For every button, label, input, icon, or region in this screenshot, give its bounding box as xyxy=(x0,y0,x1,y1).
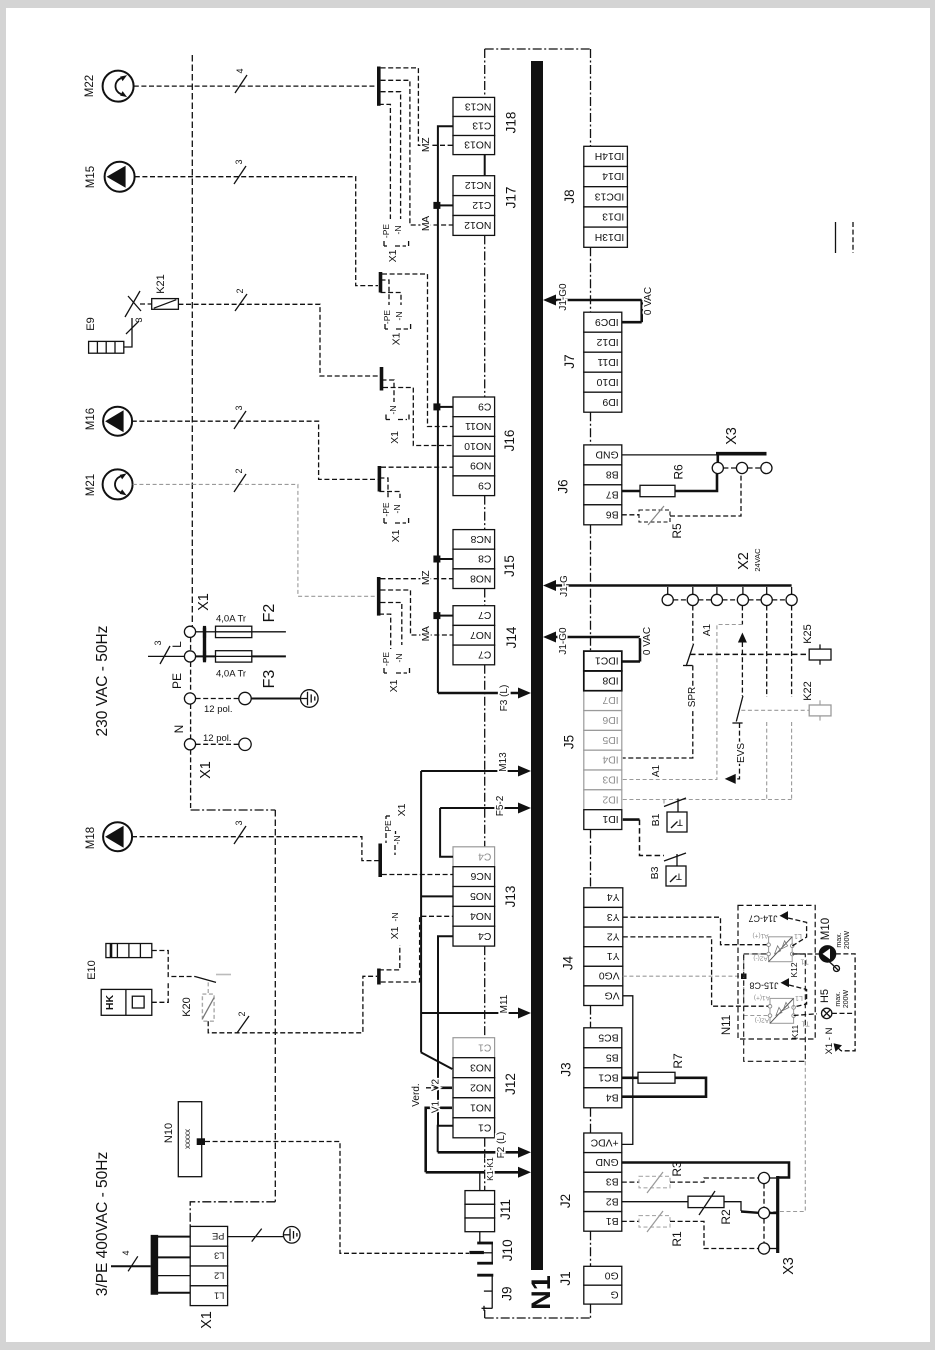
connector J4 terminal Y3 xyxy=(584,907,623,927)
SSR K11 xyxy=(770,998,794,1023)
svg-text:NC12: NC12 xyxy=(465,179,492,190)
wire Y2 to K11 A1+ xyxy=(623,937,770,1006)
connector J8 terminal ID14H xyxy=(584,146,628,166)
wire ID2 to B1 (grey) xyxy=(623,799,792,801)
X2 pin 6 xyxy=(791,587,793,594)
HK inner square xyxy=(132,996,144,1008)
connector J3 terminal B4 xyxy=(584,1088,622,1108)
wire GND (J6) to X3 xyxy=(622,454,767,456)
M10 earth nub xyxy=(829,962,834,967)
svg-text:200W: 200W xyxy=(844,930,851,949)
svg-text:ID2: ID2 xyxy=(602,793,618,804)
svg-text:J14-C7: J14-C7 xyxy=(748,914,777,924)
svg-text:M21: M21 xyxy=(85,474,97,496)
svg-text:-N: -N xyxy=(394,312,404,321)
svg-text:230 VAC - 50Hz: 230 VAC - 50Hz xyxy=(94,626,111,737)
svg-text:R7: R7 xyxy=(671,1053,685,1069)
wire M22 N conductor xyxy=(381,92,401,219)
connector J1 terminal G xyxy=(584,1285,622,1304)
motor M22 (rotation symbol) xyxy=(103,71,134,102)
connector X3 (sensor) bar xyxy=(716,452,767,455)
wire PE 400V to ground xyxy=(228,1236,283,1238)
svg-text:2: 2 xyxy=(235,288,245,293)
svg-text:F2: F2 xyxy=(261,604,278,623)
wire X2 pin5 drop xyxy=(766,606,768,698)
svg-text:C7: C7 xyxy=(478,649,492,660)
svg-text:NO9: NO9 xyxy=(470,460,492,471)
svg-text:E9: E9 xyxy=(85,317,97,330)
dashed links X3b pins xyxy=(763,1184,765,1208)
connector J14 terminal C7 xyxy=(453,606,495,626)
wire EVS branch lower xyxy=(731,723,740,779)
controller N1 outline bottom edge xyxy=(485,1317,591,1319)
slash M18 /3 xyxy=(234,826,246,844)
svg-text:NO12: NO12 xyxy=(464,219,491,230)
link J18-J17 xyxy=(484,155,486,176)
svg-text:2: 2 xyxy=(234,468,244,473)
svg-text:-N: -N xyxy=(392,836,402,845)
terminal 12pol PE xyxy=(239,692,251,704)
X1 cable bar (M18) xyxy=(378,844,382,878)
svg-text:-PE: -PE xyxy=(381,502,391,517)
svg-text:J1-G0: J1-G0 xyxy=(558,627,569,655)
stub to C8 xyxy=(438,558,453,560)
connector J18 terminal C13 xyxy=(453,117,495,136)
connector J12 terminal C1 xyxy=(453,1118,495,1138)
svg-text:3: 3 xyxy=(153,640,163,645)
wire K1-K1 feed into bus bar xyxy=(426,1171,519,1174)
svg-text:B5: B5 xyxy=(606,1051,619,1062)
svg-text:ID13: ID13 xyxy=(602,211,624,222)
resistor R5 (dashed w/ slash) xyxy=(622,514,639,516)
svg-text:J6: J6 xyxy=(556,479,571,493)
X1 cable bar (M22) xyxy=(377,67,381,106)
junction dot VG0 xyxy=(741,974,747,980)
svg-text:IDC13: IDC13 xyxy=(595,190,625,201)
svg-text:K1-K1: K1-K1 xyxy=(485,1157,495,1181)
wire NO5/NO3/M13 trunk xyxy=(420,771,422,1052)
pump M15 xyxy=(105,162,135,192)
J10 mating cable end (from N10) xyxy=(469,1251,484,1254)
wire N11 to X3 pin (neutral) xyxy=(770,1061,805,1211)
svg-text:R1: R1 xyxy=(670,1231,684,1247)
svg-text:-PE: -PE xyxy=(382,310,392,325)
svg-text:E10: E10 xyxy=(86,960,98,980)
svg-text:C12: C12 xyxy=(472,199,491,210)
wire X2 pin6 drop xyxy=(791,606,793,698)
connector J15 terminal NO8 xyxy=(453,569,495,589)
svg-text:xxxxx: xxxxx xyxy=(183,1129,192,1149)
svg-text:V2: V2 xyxy=(431,1078,442,1091)
connector J4 terminal VG0 xyxy=(584,966,623,986)
connector X3 bottom bar xyxy=(776,1176,779,1253)
connector J5 terminal ID3 xyxy=(584,770,622,790)
svg-text:R2: R2 xyxy=(719,1209,733,1225)
svg-text:ID12: ID12 xyxy=(596,336,618,347)
svg-text:J11: J11 xyxy=(498,1199,513,1220)
X3 pin 3 xyxy=(761,462,772,473)
svg-text:3: 3 xyxy=(234,820,244,825)
lamp H5 xyxy=(822,1008,832,1018)
wire breaker to K21 coil xyxy=(140,303,152,305)
sensor B3 box xyxy=(666,866,686,886)
X2 pin 2 xyxy=(692,587,694,594)
svg-text:T1: T1 xyxy=(801,1020,809,1027)
tick V2 xyxy=(441,1087,453,1090)
connector J11 terminal p1 xyxy=(465,1191,495,1205)
connector J6 terminal B6 xyxy=(584,505,622,525)
connector J12 terminal NO3 xyxy=(453,1058,495,1078)
svg-text:-N: -N xyxy=(390,913,400,922)
wire M13 feed into bus bar xyxy=(421,770,519,772)
wire ID1 to B3 xyxy=(623,818,640,821)
connector J10 pin header xyxy=(491,1243,493,1263)
connector J16 terminal NO11 xyxy=(453,417,495,437)
svg-text:4: 4 xyxy=(121,1250,131,1255)
terminal X1 PE xyxy=(184,693,195,704)
svg-text:2: 2 xyxy=(237,1011,247,1016)
svg-text:NO1: NO1 xyxy=(470,1101,492,1112)
X1 cable bar (M15) xyxy=(379,272,383,293)
terminal X1-400 L1 xyxy=(190,1286,227,1306)
busbar linking L terminals xyxy=(203,628,206,661)
connector J4 terminal Y4 xyxy=(584,888,623,908)
wire F5-2 feed into bus bar xyxy=(440,807,519,809)
fuse F2 xyxy=(216,626,252,637)
diagonal wire to NO3 xyxy=(421,1052,452,1069)
switch EVS xyxy=(736,696,743,722)
svg-text:L2: L2 xyxy=(214,1271,224,1281)
wire J11 chain to J10 xyxy=(479,1232,481,1243)
svg-text:N11: N11 xyxy=(721,1015,733,1035)
svg-text:B4: B4 xyxy=(606,1091,619,1102)
wire J1-G0 (to J7 IDC9) xyxy=(556,299,642,302)
connector J2 terminal +VDC xyxy=(584,1133,622,1153)
connector J3 terminal BC1 xyxy=(584,1068,622,1088)
svg-text:N10: N10 xyxy=(163,1123,175,1143)
M15 bracket leads xyxy=(381,280,390,305)
svg-text:K11: K11 xyxy=(790,1024,800,1039)
connector J12 terminal C1 xyxy=(453,1038,495,1058)
X3b pin 3 xyxy=(758,1243,769,1254)
connector J3 terminal B5 xyxy=(584,1048,622,1068)
svg-text:BC1: BC1 xyxy=(598,1071,618,1082)
svg-text:G0: G0 xyxy=(605,1269,619,1280)
svg-text:ID14H: ID14H xyxy=(595,150,624,161)
connector J2 terminal B2 xyxy=(584,1192,622,1212)
controller outline right chain (through input connectors) xyxy=(590,49,592,146)
svg-text:NO3: NO3 xyxy=(470,1061,492,1072)
svg-text:X3: X3 xyxy=(781,1257,797,1275)
connector J7 terminal ID12 xyxy=(584,332,622,352)
wire N10 cable to J10 xyxy=(205,1142,469,1254)
pump M16 xyxy=(103,407,132,436)
svg-text:C13: C13 xyxy=(472,120,491,131)
wire M22 cable xyxy=(134,85,378,87)
relay coil K25 xyxy=(809,649,831,660)
svg-text:-PE: -PE xyxy=(381,652,391,667)
wire M16 L conductor to NO9 xyxy=(381,466,453,468)
heater E10 xyxy=(106,944,152,958)
terminal X1 N xyxy=(184,739,195,750)
svg-text:PE: PE xyxy=(212,1231,224,1241)
svg-text:X1: X1 xyxy=(389,431,401,444)
controller N10 xyxy=(178,1102,201,1177)
wire M21 MZ conductor to NO8 xyxy=(381,578,454,580)
wire M22 PE conductor xyxy=(379,104,391,219)
wire F3(L) feed into bus bar xyxy=(438,692,519,695)
wire K21 L conductor to NO10 xyxy=(383,388,453,446)
svg-text:4: 4 xyxy=(235,68,245,73)
wire M22 MA conductor xyxy=(381,80,453,225)
svg-text:EVS: EVS xyxy=(736,743,747,763)
svg-text:IDC9: IDC9 xyxy=(595,316,619,327)
X1 cable bar (K21/E9) xyxy=(380,367,384,391)
wire M21 MA conductor to NO7 xyxy=(381,590,454,635)
svg-text:3: 3 xyxy=(134,317,144,322)
svg-text:HK: HK xyxy=(104,995,116,1011)
svg-text:X1: X1 xyxy=(396,803,408,816)
svg-text:V1: V1 xyxy=(431,1100,442,1113)
connector J6 terminal B8 xyxy=(584,465,622,485)
pump M18 xyxy=(103,822,132,851)
connector J13 terminal NC6 xyxy=(453,867,495,887)
wire K12 T1 to M10 xyxy=(792,953,820,955)
svg-text:B6: B6 xyxy=(606,508,619,519)
connector J18 terminal NC13 xyxy=(453,97,495,116)
sensor B1 box xyxy=(667,812,687,832)
wire VG0 common (grey) xyxy=(623,975,744,977)
svg-text:-N: -N xyxy=(393,226,403,235)
svg-text:BC5: BC5 xyxy=(598,1031,618,1042)
svg-text:J1-G0: J1-G0 xyxy=(558,283,569,311)
heater E9 xyxy=(89,341,124,353)
svg-text:J17: J17 xyxy=(504,187,519,209)
wire K25 coil line xyxy=(690,653,809,655)
connector J13 terminal C4 xyxy=(453,847,495,867)
X3 pin 2 xyxy=(736,462,747,473)
svg-text:C1: C1 xyxy=(478,1041,492,1052)
svg-text:12 pol.: 12 pol. xyxy=(203,733,232,744)
svg-text:VG: VG xyxy=(605,989,620,1000)
wire K11 T1 to H5 xyxy=(794,1014,817,1016)
svg-text:NO2: NO2 xyxy=(470,1081,492,1092)
X2 pin 5 xyxy=(766,587,768,594)
svg-text:MA: MA xyxy=(420,626,432,641)
connector J5 terminal IDC1 xyxy=(584,651,622,671)
resistor R3 (grey dashed w/ slash) xyxy=(639,1176,670,1188)
switch SPR xyxy=(686,644,693,666)
wire K21 cable to X1 bar xyxy=(178,304,378,376)
svg-text:Y4: Y4 xyxy=(607,891,620,902)
svg-text:Y2: Y2 xyxy=(607,931,620,942)
controller outline left chain (through relay connectors) xyxy=(484,49,486,97)
svg-text:J10: J10 xyxy=(500,1239,515,1261)
400V supply bus bar xyxy=(151,1235,159,1295)
svg-text:B3: B3 xyxy=(649,866,661,879)
ground symbol (400V PE) xyxy=(283,1227,300,1244)
svg-text:GND: GND xyxy=(596,1156,619,1167)
svg-text:ID5: ID5 xyxy=(602,734,618,745)
wire K11 L1 reference xyxy=(789,985,807,1007)
svg-text:L1: L1 xyxy=(795,994,803,1001)
svg-text:C4: C4 xyxy=(478,850,492,861)
connector J5 terminal ID8 xyxy=(584,671,622,691)
X1 cable bar (E10/K20) xyxy=(377,969,381,985)
svg-text:M22: M22 xyxy=(84,75,96,97)
dashes Verd. bracket xyxy=(426,1087,438,1089)
wire trunk F2-L commons (C4,C1) xyxy=(438,936,453,1152)
connector J16 terminal NO10 xyxy=(453,436,495,456)
connector J7 terminal IDC9 xyxy=(584,312,622,332)
svg-text:ID9: ID9 xyxy=(602,396,618,407)
wire N to 12pol terminal xyxy=(196,743,239,745)
terminal X1 L (fuse F2 input) xyxy=(184,626,195,637)
svg-text:C1: C1 xyxy=(478,1121,492,1132)
svg-text:24VAC: 24VAC xyxy=(753,548,762,572)
wire A1 trunk (X2 pin4 to ID3) xyxy=(741,606,743,625)
svg-text:J18: J18 xyxy=(504,112,519,134)
connector J8 terminal IDC13 xyxy=(584,187,628,207)
svg-text:PE: PE xyxy=(170,673,184,689)
ground symbol (230V PE) xyxy=(301,690,319,708)
svg-text:NO8: NO8 xyxy=(470,572,492,583)
slash K21 /2 xyxy=(235,294,247,311)
svg-text:IDC1: IDC1 xyxy=(595,655,619,666)
svg-text:L: L xyxy=(170,641,184,648)
svg-text:J16: J16 xyxy=(502,430,517,452)
wire J1-G 24VAC supply to X2 xyxy=(556,584,792,587)
arrow EVS lower (points left at A1 line) xyxy=(725,774,736,784)
svg-text:NO10: NO10 xyxy=(464,440,491,451)
svg-text:X1 - N: X1 - N xyxy=(824,1027,835,1054)
svg-text:ID8: ID8 xyxy=(602,674,618,685)
svg-text:C8: C8 xyxy=(478,553,492,564)
svg-text:ID6: ID6 xyxy=(602,714,618,725)
connector J14 terminal NO7 xyxy=(453,625,495,645)
slash M15 /3 xyxy=(234,166,246,184)
bracket X1 (M18) xyxy=(385,833,387,843)
wire K20 N lead xyxy=(379,945,400,970)
connector J11 terminal p2 xyxy=(465,1204,495,1218)
svg-text:GND: GND xyxy=(596,449,619,460)
control box HK xyxy=(101,989,152,1015)
svg-text:A1: A1 xyxy=(702,623,713,636)
svg-text:4,0A Tr: 4,0A Tr xyxy=(216,614,246,625)
svg-text:M10: M10 xyxy=(820,918,832,940)
N11 outer dashed box xyxy=(738,905,815,1039)
wire M18 cable xyxy=(132,837,379,861)
wire K20 cable to X1 bar xyxy=(208,976,377,1033)
svg-text:X1: X1 xyxy=(391,332,403,345)
svg-text:X3: X3 xyxy=(724,427,740,445)
svg-text:M18: M18 xyxy=(85,827,97,849)
terminal X1-400 PE xyxy=(190,1226,227,1246)
slash (PE row) xyxy=(252,1229,262,1242)
pump M10 (filled) xyxy=(819,946,836,963)
wire M16 cable xyxy=(132,421,378,479)
svg-text:Verd.: Verd. xyxy=(411,1083,422,1106)
stub L1 xyxy=(157,1292,190,1294)
connector J15 terminal NC8 xyxy=(453,530,495,550)
svg-text:J9: J9 xyxy=(500,1286,515,1300)
junction square C9 xyxy=(433,403,440,410)
X2 pin 4 xyxy=(742,587,744,594)
svg-text:3: 3 xyxy=(234,405,244,410)
connector J7 terminal ID11 xyxy=(584,352,622,372)
connector J3 terminal BC5 xyxy=(584,1028,622,1048)
svg-text:R5: R5 xyxy=(670,523,684,539)
stub NO5 xyxy=(421,895,453,897)
boundary jog xyxy=(191,809,276,811)
connector J5 terminal ID5 xyxy=(584,730,622,750)
svg-text:X1: X1 xyxy=(390,529,402,542)
svg-text:MZ: MZ xyxy=(420,570,432,585)
resistor R6 xyxy=(622,490,640,493)
breaker contact (E9/K21) xyxy=(125,291,140,317)
bracket X1 (K21) xyxy=(386,419,390,421)
svg-text:B1: B1 xyxy=(606,1215,619,1226)
svg-text:K20: K20 xyxy=(181,997,193,1017)
connector J2 terminal B3 xyxy=(584,1172,622,1192)
svg-text:3/PE 400VAC - 50Hz: 3/PE 400VAC - 50Hz xyxy=(94,1152,111,1296)
connector J16 terminal NO9 xyxy=(453,456,495,476)
svg-text:-N: -N xyxy=(394,654,404,663)
junction square C12 xyxy=(433,202,440,209)
svg-text:R3: R3 xyxy=(670,1161,684,1177)
switch B3 xyxy=(664,853,686,861)
wire K22 coil line xyxy=(741,709,809,711)
wire M21 cable xyxy=(133,484,377,596)
svg-text:J1-G: J1-G xyxy=(559,575,570,597)
wire SPR to ID4 xyxy=(623,666,693,759)
svg-text:X1: X1 xyxy=(198,761,214,779)
svg-text:PE: PE xyxy=(383,820,393,832)
svg-text:F2 (L): F2 (L) xyxy=(496,1132,507,1159)
terminal X1-400 L3 xyxy=(190,1246,227,1266)
svg-text:N1: N1 xyxy=(526,1275,556,1310)
svg-text:A1(+): A1(+) xyxy=(752,932,768,939)
svg-text:ID14: ID14 xyxy=(602,170,624,181)
connector J6 terminal GND xyxy=(584,445,622,465)
X2 pin 1 xyxy=(667,587,669,594)
slash 4 (400V) xyxy=(128,1256,138,1271)
connector J12 terminal NO1 xyxy=(453,1098,495,1118)
svg-text:J12: J12 xyxy=(503,1073,518,1095)
svg-text:VG0: VG0 xyxy=(599,970,620,981)
svg-text:C9: C9 xyxy=(478,479,492,490)
resistor R1 (grey dashed w/ slash) xyxy=(639,1216,670,1228)
svg-text:K12: K12 xyxy=(789,962,799,977)
svg-text:K22: K22 xyxy=(802,681,814,701)
svg-text:X1: X1 xyxy=(388,679,400,692)
M21 bracket leads xyxy=(381,603,402,646)
svg-text:M11: M11 xyxy=(499,994,510,1013)
connector J17 terminal NO12 xyxy=(453,216,495,236)
svg-text:NO4: NO4 xyxy=(470,910,492,921)
wire HK to switch xyxy=(152,983,168,1002)
svg-text:ID11: ID11 xyxy=(597,356,618,367)
svg-text:B7: B7 xyxy=(606,488,619,499)
svg-text:+VDC: +VDC xyxy=(590,1136,619,1147)
bracket X1 (M16) xyxy=(384,522,387,524)
wire Y3 to K12 A1+ xyxy=(623,917,769,945)
J5 IDC1/ID8 emphasized borders xyxy=(584,651,622,671)
svg-text:12 pol.: 12 pol. xyxy=(204,704,233,715)
svg-text:M15: M15 xyxy=(85,166,97,188)
svg-text:X2: X2 xyxy=(736,552,752,570)
relay coil K20 (grey) xyxy=(202,994,214,1021)
